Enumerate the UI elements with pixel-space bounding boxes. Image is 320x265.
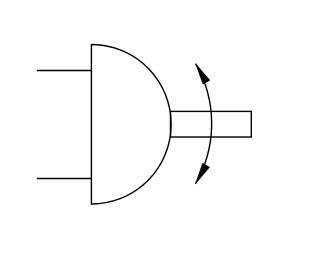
actuator body (semicircular vane housing) <box>91 45 171 205</box>
port line P2 (bottom left) <box>37 178 92 180</box>
port line P1 (top left) <box>37 70 92 72</box>
arrowhead bottom <box>195 163 209 184</box>
arrowhead top <box>196 64 210 85</box>
shaft rectangle <box>171 111 252 137</box>
rotation arc <box>195 64 211 184</box>
